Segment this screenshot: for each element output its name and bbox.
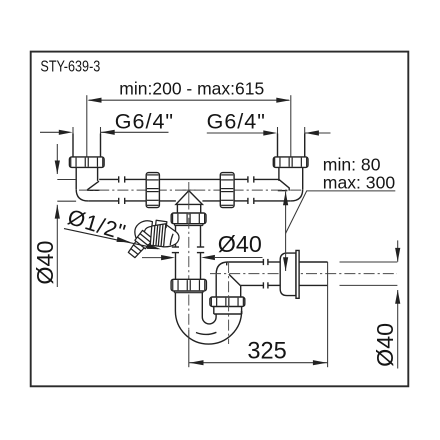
arrowhead to right pipe thread (left-pointing)	[305, 130, 319, 135]
arrowhead left of 325	[189, 360, 203, 365]
arrowhead left of min200 dim	[87, 98, 101, 103]
svg-text:min: 80: min: 80	[323, 154, 381, 174]
svg-text:Ø40: Ø40	[32, 241, 58, 285]
right tail centerline / extension	[290, 95, 292, 157]
outlet pipe after flange	[299, 262, 328, 285]
left union nut at tee	[146, 173, 159, 208]
outlet pipe centerline	[210, 273, 397, 275]
right coupling nut	[273, 157, 308, 168]
spigot top stub	[156, 220, 167, 227]
arrowhead right of min200 dim	[276, 98, 290, 103]
drawing frame border	[31, 52, 409, 387]
cone socket arc	[170, 234, 173, 245]
arrowhead up to pipe bottom	[55, 205, 60, 219]
outlet elbow	[216, 262, 263, 297]
arrowhead down to pipe top	[395, 248, 400, 262]
arrowhead at left wall	[161, 255, 175, 260]
right inlet elbow	[255, 168, 303, 201]
spigot hex nut	[150, 224, 166, 247]
outlet pipe wall extension lines to right dim	[340, 262, 398, 285]
vertical pipe with break	[172, 226, 204, 280]
spigot cone body into pipe	[163, 224, 179, 247]
lower nut collar	[174, 291, 203, 293]
barbed hose nipple with thread	[126, 230, 153, 259]
top pipe center segment walls	[159, 179, 220, 201]
svg-text:Ø40: Ø40	[372, 323, 398, 367]
tee nut collar	[175, 224, 203, 226]
tee neck below cone	[177, 204, 200, 213]
leader arrowhead at fitting nut	[147, 244, 161, 249]
leader arrowhead at hose barb	[117, 237, 131, 242]
dishwasher spigot fitting (Ø1/2)	[126, 220, 179, 259]
svg-text:min:200 - max:615: min:200 - max:615	[119, 79, 264, 99]
325 dimension	[189, 262, 328, 367]
left tail pipe walls	[73, 134, 101, 157]
flange lip	[296, 250, 299, 298]
svg-text:325: 325	[247, 339, 286, 365]
trap right leg collar	[214, 306, 242, 314]
svg-text:G6/4": G6/4"	[115, 110, 174, 134]
trap right leg centerline	[228, 262, 230, 344]
right union nut at tee	[220, 173, 234, 208]
wall flange body	[280, 250, 299, 298]
arrowhead up to pipe bottom	[395, 290, 400, 304]
left Ø40 dimension	[57, 144, 76, 287]
outlet pipe break marks	[263, 259, 280, 289]
right tail pipe walls	[278, 134, 305, 157]
horizontal pipe centerline	[79, 189, 302, 191]
right Ø40 dimension	[397, 240, 399, 368]
trap outlet nut	[210, 297, 245, 307]
left coupling nut	[69, 157, 104, 168]
spigot elbow	[135, 221, 153, 241]
G6/4 left dimension	[40, 127, 169, 157]
trap water line smile	[196, 332, 216, 334]
vertical pipe centerline	[188, 199, 190, 331]
arrowhead to left pipe thread (left-pointing)	[101, 130, 115, 135]
arrowhead down to pipe top	[55, 161, 60, 175]
G6/4 right dimension	[207, 127, 331, 157]
tee cone	[176, 191, 203, 205]
min80-max300 vertical dimension line	[285, 192, 287, 272]
arrowhead right of 325	[313, 360, 327, 365]
arrowhead down at flange	[283, 257, 288, 271]
arrowhead up at pipe centerline	[283, 192, 288, 206]
left inlet elbow	[76, 168, 119, 201]
min80-max300 leader line	[286, 191, 396, 234]
tee vertical centerline (upper)	[188, 182, 190, 199]
top pipe left segment with break	[119, 176, 147, 204]
Ø1/2 leader line with double arrowheads	[64, 229, 158, 249]
svg-text:STY-639-3: STY-639-3	[40, 58, 100, 76]
lower pipe nut	[171, 279, 206, 291]
U-trap	[175, 293, 241, 344]
Ø40 center dimension arrows	[142, 257, 162, 259]
arrowhead to right pipe thread (right-pointing)	[263, 130, 277, 135]
svg-text:G6/4": G6/4"	[207, 110, 266, 134]
svg-text:max: 300: max: 300	[323, 172, 396, 192]
left tail centerline / extension	[86, 95, 88, 157]
arrowhead at right wall	[201, 255, 215, 260]
dimension line min200-max615	[89, 99, 290, 101]
svg-text:Ø40: Ø40	[218, 231, 262, 257]
tee nut on vertical pipe	[171, 213, 206, 224]
arrowhead to left pipe thread (right-pointing)	[59, 130, 73, 135]
top pipe right segment with break	[234, 176, 254, 204]
tee horizontal centerline dash at cone apex	[183, 189, 196, 191]
